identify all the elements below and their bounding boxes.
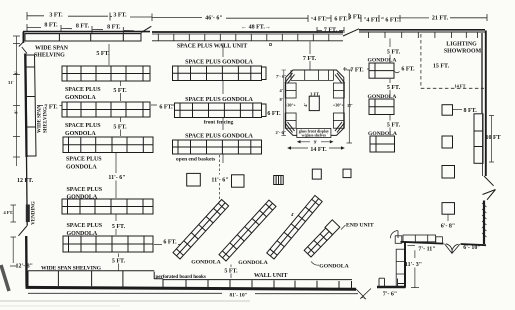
- L-wall foot and step: [377, 278, 406, 287]
- svg-text:4 FT.: 4 FT.: [366, 18, 380, 24]
- svg-text:6 FT.: 6 FT.: [385, 18, 399, 24]
- right wall upper: [482, 31, 486, 177]
- vending unit: [26, 205, 30, 223]
- svg-text:open end baskets: open end baskets: [176, 157, 215, 163]
- vertical dim line between M2-M3: [222, 118, 224, 163]
- svg-text:3 FT.: 3 FT.: [113, 13, 127, 19]
- svg-text:GONDOLA: GONDOLA: [67, 195, 98, 201]
- bottom wall band: [26, 286, 357, 291]
- top dimension line row 1: [27, 12, 487, 22]
- svg-text:END UNIT: END UNIT: [346, 223, 374, 229]
- svg-text:15 FT.: 15 FT.: [433, 64, 450, 70]
- top wall left section: [23, 32, 150, 34]
- svg-text:3 FT.: 3 FT.: [49, 13, 63, 19]
- svg-text:GONDOLA: GONDOLA: [368, 131, 397, 137]
- bottom wall unit bar: [163, 280, 352, 288]
- vertical dim line M column top: [222, 43, 224, 94]
- floor square S1: [187, 173, 201, 186]
- svg-text:GONDOLA: GONDOLA: [65, 131, 96, 137]
- svg-text:46'- 6": 46'- 6": [205, 16, 223, 22]
- gondola box B3: [370, 136, 395, 152]
- dimension 12'-8" bracket: [10, 237, 17, 266]
- svg-text:4 FT.: 4 FT.: [313, 17, 327, 23]
- L-wall vertical segment: [404, 243, 406, 288]
- svg-text:5 FT.: 5 FT.: [387, 123, 401, 129]
- center display rect: [309, 96, 319, 110]
- striped square S3: [274, 176, 284, 185]
- wall unit cells left of vertical wall: [395, 236, 404, 287]
- svg-text:SPACE PLUS GONDOLA: SPACE PLUS GONDOLA: [185, 60, 253, 66]
- gondola box B2: [369, 99, 394, 115]
- svg-text:SPACE PLUS GONDOLA: SPACE PLUS GONDOLA: [185, 97, 253, 103]
- svg-text:7 FT.: 7 FT.: [350, 68, 364, 74]
- scan artifact bottom left: [1, 265, 9, 291]
- door leaf diagonal at top gap: [141, 26, 152, 32]
- square SC: [442, 166, 455, 179]
- top wall middle section: [152, 32, 343, 41]
- svg-text:17': 17': [347, 103, 353, 108]
- square SA (display case right column): [442, 105, 453, 116]
- svg-text:8': 8': [14, 71, 19, 74]
- svg-text:5 FT.: 5 FT.: [387, 85, 401, 91]
- svg-text:VENDING: VENDING: [32, 201, 37, 225]
- diagonal gondola D1: [173, 199, 229, 259]
- svg-text:w/glass shelves: w/glass shelves: [302, 134, 327, 138]
- dimension 4 FT bracket: [11, 205, 17, 222]
- svg-text:GONDOLA: GONDOLA: [319, 264, 349, 270]
- svg-text:SPACE PLUS: SPACE PLUS: [67, 223, 103, 229]
- dimension line 11-3: [411, 250, 419, 287]
- svg-text:8 FT.: 8 FT.: [44, 23, 58, 29]
- svg-text:31': 31': [8, 80, 14, 85]
- dashed dim line 11-6: [219, 155, 221, 202]
- bottom wide span shelving unit: [28, 271, 163, 287]
- gondola G4: [62, 199, 153, 214]
- svg-text:11'- 6": 11'- 6": [108, 175, 125, 181]
- svg-text:11'- 3": 11'- 3": [405, 262, 422, 268]
- door arc at L-wall corner: [390, 231, 398, 239]
- octagon left cases: [285, 83, 296, 128]
- label 14 FT dimension: [288, 147, 344, 150]
- svg-text:SPACE PLUS: SPACE PLUS: [66, 157, 102, 163]
- svg-text:3 FT.: 3 FT.: [310, 92, 320, 97]
- glass front display text box: [297, 128, 331, 137]
- octagon top case: [291, 70, 334, 80]
- dimension 7 FT segment: [317, 27, 344, 33]
- svg-text:8 FT.: 8 FT.: [76, 24, 90, 30]
- octagon corner cases: [285, 73, 345, 133]
- wide span shelving vertical unit: [26, 55, 36, 156]
- double door swing (bottom right): [445, 244, 460, 254]
- svg-text:GONDOLA: GONDOLA: [191, 259, 221, 265]
- svg-text:7 FT.: 7 FT.: [44, 105, 58, 111]
- svg-text:front fencing: front fencing: [204, 120, 234, 126]
- square SB: [442, 136, 453, 148]
- wall unit cells above horizontal wall: [403, 235, 442, 243]
- svg-text:4': 4': [303, 103, 308, 106]
- gondola G5: [63, 236, 153, 252]
- right wall door swing: [483, 176, 496, 200]
- dimension line 7-11: [407, 244, 415, 246]
- dimension line 10 FT: [489, 116, 494, 163]
- dimension line x109 top: [109, 44, 121, 101]
- diagonal gondola D3: [267, 195, 322, 259]
- svg-text:WIDE SPAN SHELVING: WIDE SPAN SHELVING: [41, 266, 102, 272]
- right wall tall unit: [474, 114, 483, 164]
- left dimension line column: [13, 36, 20, 166]
- svg-text:6 FT.: 6 FT.: [163, 240, 177, 246]
- svg-text:SHELVING: SHELVING: [34, 53, 65, 59]
- top dimension line row 2 (8 FT x3): [27, 24, 134, 34]
- octagon right cases: [333, 83, 344, 128]
- gondola G1: [62, 66, 150, 81]
- svg-text:+30°+: +30°+: [333, 103, 345, 108]
- svg-text:3 FT.: 3 FT.: [348, 15, 362, 21]
- svg-text:14 FT.: 14 FT.: [310, 147, 327, 153]
- svg-text:81'- 10": 81'- 10": [229, 292, 247, 298]
- square SD: [442, 203, 455, 215]
- octagon right dim line 17': [347, 70, 353, 143]
- gondola G2: [62, 102, 150, 117]
- svg-text:4 FT.: 4 FT.: [4, 210, 14, 215]
- svg-text:SPACE PLUS: SPACE PLUS: [65, 123, 101, 129]
- svg-text:6'- 10": 6'- 10": [463, 245, 481, 251]
- svg-text:6 FT.: 6 FT.: [334, 17, 348, 23]
- right wall lower hatched section: [482, 201, 487, 245]
- svg-text:+30°+: +30°+: [285, 103, 297, 108]
- svg-text:4': 4': [291, 212, 294, 217]
- svg-text:9': 9': [314, 140, 317, 145]
- svg-text:GONDOLA: GONDOLA: [66, 165, 97, 171]
- svg-text:SPACE PLUS: SPACE PLUS: [67, 187, 103, 193]
- svg-text:8 FT.: 8 FT.: [464, 108, 478, 114]
- left wall lower segment: [25, 236, 28, 287]
- svg-text:SPACE PLUS GONDOLA: SPACE PLUS GONDOLA: [185, 134, 253, 140]
- svg-text:GONDOLA: GONDOLA: [238, 260, 268, 266]
- svg-text:GONDOLA: GONDOLA: [65, 95, 96, 101]
- svg-text:SPACE PLUS: SPACE PLUS: [65, 87, 101, 93]
- svg-text:WALL UNIT: WALL UNIT: [254, 273, 287, 279]
- svg-text:WIDE SPAN: WIDE SPAN: [38, 105, 43, 133]
- wall segment 6'-10": [461, 244, 487, 245]
- svg-text:6'- 8": 6'- 8": [441, 224, 456, 230]
- svg-text:14 FT: 14 FT: [454, 83, 465, 88]
- svg-text:7'- 6": 7'- 6": [276, 74, 287, 79]
- svg-text:21 FT.: 21 FT.: [432, 16, 449, 22]
- svg-text:5 FT.: 5 FT.: [387, 50, 401, 56]
- bottom dimension line 81'-10": [28, 292, 358, 294]
- svg-text:perforated board hooks: perforated board hooks: [156, 274, 206, 280]
- gondola M2: [175, 103, 267, 118]
- wide span shelving top unit: [25, 34, 141, 41]
- top wall right section: [359, 30, 485, 38]
- gondola M1: [173, 66, 267, 81]
- svg-text:11'- 6": 11'- 6": [211, 178, 228, 184]
- left wall door leaf: [19, 226, 27, 236]
- svg-text:2'- 6": 2'- 6": [276, 130, 287, 135]
- svg-text:10 FT: 10 FT: [486, 135, 501, 141]
- svg-text:← 48 FT.→: ← 48 FT.→: [241, 25, 271, 31]
- diagonal gondola D4 (end unit): [303, 220, 339, 257]
- svg-text:GONDOLA: GONDOLA: [368, 94, 397, 100]
- svg-text:SPACE PLUS WALL UNIT: SPACE PLUS WALL UNIT: [177, 44, 247, 50]
- bottom door swing: [356, 289, 371, 300]
- svg-text:5 FT.: 5 FT.: [112, 224, 126, 230]
- svg-text:7'- 6": 7'- 6": [383, 292, 398, 298]
- svg-text:7'- 11": 7'- 11": [418, 247, 435, 253]
- svg-text:8': 8': [280, 97, 283, 102]
- svg-text:LIGHTING: LIGHTING: [446, 41, 477, 47]
- floor square S2: [232, 175, 245, 187]
- gondola M3: [173, 140, 262, 154]
- label 9' dimension: [298, 141, 333, 144]
- svg-text:6 FT.: 6 FT.: [401, 67, 415, 73]
- octagon display outline: [286, 70, 344, 135]
- svg-text:4': 4': [280, 88, 283, 93]
- dimension line to bottom shelf: [118, 254, 120, 272]
- floor square S5: [343, 169, 351, 178]
- svg-text:8 FT.: 8 FT.: [107, 25, 121, 31]
- gondola box B1: [369, 63, 394, 78]
- svg-text:WIDE SPAN: WIDE SPAN: [35, 46, 69, 52]
- left wall upper and corner door: [19, 32, 27, 226]
- scan circle mark: [269, 43, 271, 45]
- svg-text:6 FT.: 6 FT.: [159, 105, 173, 111]
- svg-text:5 FT.: 5 FT.: [96, 51, 110, 57]
- svg-text:SHELVING: SHELVING: [44, 107, 49, 133]
- diagonal gondola D2: [219, 200, 276, 261]
- svg-text:GONDOLA: GONDOLA: [368, 58, 397, 64]
- svg-text:SHOWROOM: SHOWROOM: [444, 49, 482, 55]
- svg-text:12 FT.: 12 FT.: [17, 178, 34, 184]
- svg-text:12'- 8": 12'- 8": [16, 264, 34, 270]
- floor square S4: [312, 169, 321, 179]
- LIGHTING SHOWROOM dashed boundary: [421, 34, 484, 88]
- svg-text:6 FT.: 6 FT.: [267, 111, 281, 117]
- svg-text:8': 8': [14, 110, 19, 113]
- door jog diagonal (3 FT gap): [343, 29, 359, 36]
- L-wall horizontal segment: [401, 242, 444, 244]
- gondola G3: [63, 137, 153, 153]
